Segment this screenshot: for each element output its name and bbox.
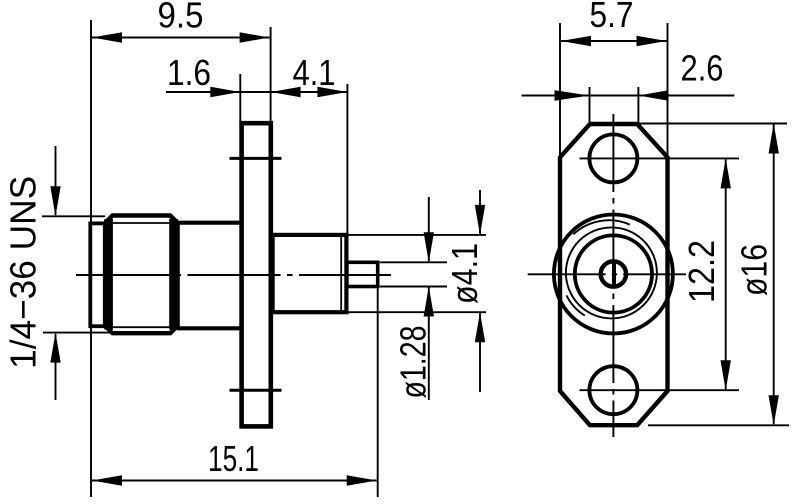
bottom mounting hole [589,366,637,414]
insulator circle [575,235,652,312]
svg-text:12.2: 12.2 [681,240,722,303]
svg-text:ø4.1: ø4.1 [444,243,485,304]
center contact hole [601,261,626,286]
mounting hole axis tick bottom (side view) [230,389,282,392]
svg-text:ø16: ø16 [734,244,775,296]
middle cylinder between barrel and flange [177,223,241,329]
thread root line top [112,222,170,224]
connector front collar (mating face) [90,223,106,326]
thread helix arc top [573,220,630,234]
svg-text:4.1: 4.1 [293,52,336,93]
thread root line bottom [112,326,170,328]
svg-text:1/4−36 UNS: 1/4−36 UNS [2,176,43,369]
flange plate side view [242,123,271,426]
center contact slot [612,260,616,287]
svg-text:9.5: 9.5 [158,0,204,36]
svg-text:ø1.28: ø1.28 [393,326,434,399]
bottom hole centerline [580,389,740,391]
svg-text:2.6: 2.6 [681,48,724,89]
svg-text:5.7: 5.7 [590,0,634,35]
rear cylinder chamfer line [340,237,342,311]
thread relief ring (thin, slightly eccentric) [566,227,657,318]
thread knurl band left [104,219,113,330]
horizontal centerline front view [528,273,686,275]
top hole centerline [580,157,740,159]
top mounting hole [589,134,637,182]
thread helix arc lower-left [567,295,585,315]
svg-text:1.6: 1.6 [167,52,211,93]
solder pin dia 1.28 [347,262,378,286]
flange plate front view (octagon) [560,124,668,425]
svg-text:15.1: 15.1 [208,438,259,479]
mounting hole axis tick top (side view) [230,157,282,160]
vertical centerline front view [612,114,614,437]
center boss outer circle [554,215,673,334]
centerline side view [76,274,391,276]
rear cylinder dia 4.1 [273,235,347,312]
threaded barrel (nut) outline with chamfered corners [105,216,178,334]
thread knurl band right [169,219,178,330]
